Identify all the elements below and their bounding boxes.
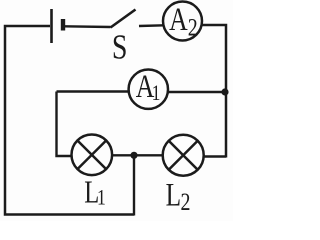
svg-text:1: 1 <box>97 186 106 210</box>
junction node: lamp branch <box>130 152 137 159</box>
wire: L2 to right rail <box>204 155 227 157</box>
label A2 <box>169 2 198 41</box>
wire: battery to switch <box>65 25 111 28</box>
battery cell: long plate (positive) <box>50 9 53 43</box>
lamp L2 (circle with X) <box>163 135 204 176</box>
label A1 <box>136 69 161 105</box>
wire: lamp junction down to bottom rail <box>133 155 135 215</box>
wire: switch to ammeter A2 <box>139 24 164 27</box>
wire: A1 row left segment <box>57 90 130 92</box>
svg-text:A: A <box>169 2 188 38</box>
battery cell: short thick plate (negative) <box>61 19 65 31</box>
ammeter A2 circle <box>163 2 202 41</box>
wire: lamp row between L1 and L2 <box>112 154 164 156</box>
ammeter A1 circle <box>129 70 168 109</box>
lamp L1 (circle with X) <box>72 135 113 176</box>
label S <box>112 28 128 67</box>
svg-text:2: 2 <box>188 13 198 41</box>
svg-text:S: S <box>112 28 128 67</box>
wire: A1 row right segment <box>168 91 227 93</box>
junction node: A1 branch on right rail <box>221 88 228 95</box>
wire: A2 to right rail, down right side <box>201 25 226 158</box>
svg-text:2: 2 <box>181 188 191 216</box>
wire: outer loop (top-left, left side, bottom) <box>5 26 134 215</box>
svg-text:1: 1 <box>152 81 161 105</box>
wire: inner-left vertical from A1 row to lamp row <box>57 92 73 157</box>
switch S lever (open) <box>111 10 136 28</box>
label L1 <box>84 176 105 211</box>
svg-text:L: L <box>166 178 181 214</box>
label L2 <box>166 178 191 216</box>
